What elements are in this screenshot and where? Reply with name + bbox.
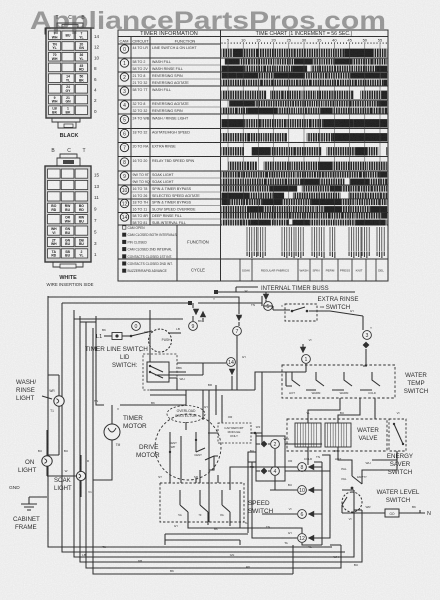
node 12 <box>298 534 322 543</box>
energy saver switch label <box>387 453 413 476</box>
node 6 <box>298 510 322 519</box>
timer line switch label <box>85 346 148 353</box>
cam row 7 <box>118 143 388 156</box>
water temp switch label <box>404 372 428 395</box>
cam row 2 <box>118 73 388 86</box>
node 10 <box>298 486 322 495</box>
drive motor <box>136 414 221 480</box>
wire left bus verticals and bottom bus <box>48 296 362 574</box>
cam row 14 <box>118 213 388 225</box>
node 2 <box>256 440 279 449</box>
pressure bulb <box>342 509 431 517</box>
node 3 <box>363 316 372 366</box>
water valve <box>287 419 387 461</box>
extra rinse switch label <box>318 296 359 311</box>
timer motor <box>104 405 147 468</box>
connector plug P2 WHITE <box>45 148 100 287</box>
cam row 8 <box>118 158 388 171</box>
wire top buss lines <box>48 287 355 322</box>
speed selector contact box <box>248 436 285 481</box>
timer cam chart bars <box>222 49 388 226</box>
connector plug P1 BLACK <box>45 15 100 139</box>
cam row 5 <box>118 115 388 128</box>
drive motor windings <box>169 432 214 470</box>
cam row 6 <box>118 129 388 142</box>
timer line switch mechanism <box>130 329 181 352</box>
water level switch label <box>377 489 420 504</box>
timer information table frame <box>118 30 388 281</box>
water temp switch <box>282 365 395 398</box>
chart grid lines <box>228 44 380 225</box>
overload protector <box>167 395 205 430</box>
ground cabinet frame <box>9 485 47 510</box>
watermark AppliancePartsPros.com <box>30 7 386 35</box>
cam row 1 <box>118 59 388 72</box>
cam row 10 <box>118 186 388 199</box>
scan noise overlay <box>0 0 1 1</box>
on light <box>18 430 52 476</box>
node 14 <box>209 358 255 390</box>
water level switch <box>341 470 366 512</box>
speed switch <box>160 483 244 522</box>
node 7 <box>233 315 243 390</box>
internal timer buss callout <box>236 286 329 292</box>
node 1 <box>300 344 311 372</box>
cycle row <box>240 259 376 281</box>
node 0 <box>132 322 141 331</box>
cam row 12 <box>118 199 388 212</box>
node 4 <box>256 467 279 476</box>
cam row 0 <box>118 45 388 58</box>
cam row 3 <box>118 87 388 100</box>
wash rinse light <box>16 375 64 455</box>
water valve label <box>357 427 379 442</box>
capacitor module <box>208 423 262 443</box>
time scale ruler ticks <box>222 42 386 44</box>
wire speed switch feeders <box>230 455 330 545</box>
node 9 <box>189 303 207 330</box>
cabinet frame label <box>13 516 40 531</box>
speed switch label <box>248 500 274 515</box>
timer line switch L1 terminal <box>96 333 131 341</box>
lid switch label <box>112 355 138 369</box>
wire misc interconnects <box>47 296 397 545</box>
chart legend <box>123 226 209 273</box>
svg-text:AppliancePartsPros.com: AppliancePartsPros.com <box>30 7 386 35</box>
soak light <box>47 455 86 497</box>
cam row 9 <box>118 172 388 185</box>
wire additional verticals <box>150 363 362 574</box>
cam row 4 <box>118 101 388 114</box>
node 5 contact <box>263 292 273 310</box>
node 8 <box>298 463 322 472</box>
lid switch <box>143 310 186 390</box>
function phase marks <box>247 227 384 251</box>
table titles <box>120 31 383 44</box>
energy saver switch <box>389 419 406 451</box>
extra rinse switch <box>273 304 363 321</box>
